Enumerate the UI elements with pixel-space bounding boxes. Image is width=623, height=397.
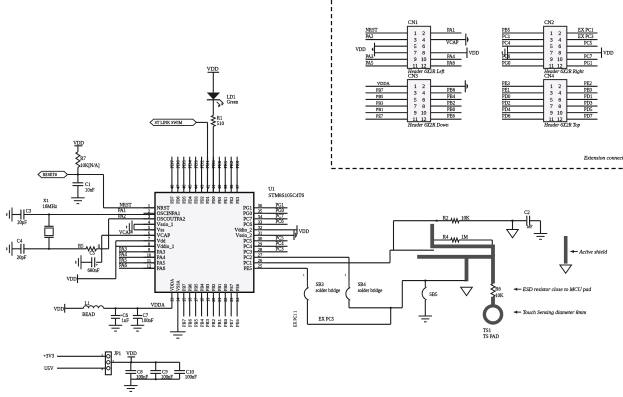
svg-text:PA3: PA3 <box>157 251 166 256</box>
svg-text:44: 44 <box>193 185 198 189</box>
svg-text:Vddio_1: Vddio_1 <box>157 245 175 250</box>
svg-text:VDDA: VDDA <box>151 303 165 308</box>
svg-text:12: 12 <box>421 117 427 123</box>
svg-text:PD2: PD2 <box>199 160 204 169</box>
svg-text:EX PC3: EX PC3 <box>578 35 594 40</box>
svg-text:11: 11 <box>413 64 419 70</box>
svg-text:VCAP: VCAP <box>157 234 171 239</box>
svg-text:2: 2 <box>558 31 561 37</box>
svg-text:PD5: PD5 <box>181 196 186 203</box>
svg-text:10: 10 <box>557 110 563 116</box>
svg-text:PG0: PG0 <box>243 212 252 217</box>
svg-text:12: 12 <box>557 117 563 123</box>
svg-text:2: 2 <box>422 84 425 90</box>
svg-text:PB7: PB7 <box>376 87 383 92</box>
svg-text:PE3: PE3 <box>235 160 240 168</box>
svg-text:Vss: Vss <box>157 229 165 234</box>
svg-text:7: 7 <box>550 104 553 110</box>
svg-text:ST LINK SWIM: ST LINK SWIM <box>155 120 183 125</box>
svg-text:PB2: PB2 <box>447 102 456 107</box>
svg-text:PC5: PC5 <box>243 240 252 245</box>
svg-text:1: 1 <box>148 203 150 208</box>
svg-text:VDD: VDD <box>67 277 78 282</box>
svg-text:PB1: PB1 <box>376 107 383 112</box>
svg-text:EX PC5: EX PC5 <box>319 318 335 323</box>
svg-text:4: 4 <box>558 91 561 97</box>
svg-text:solder bridge: solder bridge <box>358 289 383 294</box>
svg-text:46: 46 <box>182 185 187 189</box>
svg-text:1: 1 <box>550 84 553 90</box>
svg-text:VDD: VDD <box>54 307 65 312</box>
svg-text:43: 43 <box>199 185 204 189</box>
svg-text:PB3: PB3 <box>376 101 383 106</box>
svg-text:PE2: PE2 <box>584 82 592 87</box>
svg-text:TS PAD: TS PAD <box>483 335 499 340</box>
svg-text:8: 8 <box>422 104 425 110</box>
svg-text:VDDA: VDDA <box>170 279 175 291</box>
svg-text:CN4: CN4 <box>544 73 554 79</box>
svg-text:PG0: PG0 <box>276 209 285 214</box>
svg-text:SB4: SB4 <box>358 283 367 288</box>
svg-text:PE7: PE7 <box>229 319 234 327</box>
svg-text:PC1: PC1 <box>243 262 252 267</box>
svg-text:PD1: PD1 <box>584 95 593 100</box>
svg-text:X1: X1 <box>43 198 49 203</box>
svg-text:10K: 10K <box>495 294 504 299</box>
svg-text:6: 6 <box>422 44 425 50</box>
svg-text:Extension connectors: Extension connectors <box>583 156 623 162</box>
svg-text:3: 3 <box>550 37 553 43</box>
svg-text:VCAP: VCAP <box>446 41 459 46</box>
svg-text:PB5: PB5 <box>193 318 198 327</box>
svg-text:PC5: PC5 <box>584 42 593 47</box>
svg-text:PB3: PB3 <box>205 284 210 291</box>
svg-text:PB5: PB5 <box>376 94 383 99</box>
svg-text:PE2: PE2 <box>229 197 234 204</box>
svg-text:2: 2 <box>558 84 561 90</box>
svg-text:U1: U1 <box>268 187 275 193</box>
svg-text:12: 12 <box>557 64 563 70</box>
svg-text:8: 8 <box>558 51 561 57</box>
svg-text:Vdd: Vdd <box>157 240 166 245</box>
svg-text:4: 4 <box>422 91 425 97</box>
svg-text:Active shield: Active shield <box>578 249 607 255</box>
svg-text:PC1: PC1 <box>502 35 511 40</box>
svg-text:PC3: PC3 <box>243 251 252 256</box>
svg-text:10: 10 <box>421 57 427 63</box>
svg-text:PD2: PD2 <box>502 102 511 107</box>
svg-text:11: 11 <box>413 117 419 123</box>
svg-text:JP1: JP1 <box>114 352 122 357</box>
svg-text:PE6: PE6 <box>447 115 455 120</box>
svg-text:20pF: 20pF <box>17 221 27 226</box>
svg-text:PD6: PD6 <box>176 160 181 169</box>
svg-text:U5V: U5V <box>44 367 54 372</box>
svg-text:9: 9 <box>414 110 417 116</box>
svg-text:PE1: PE1 <box>223 197 228 204</box>
svg-text:PD6: PD6 <box>502 115 511 120</box>
svg-text:5: 5 <box>414 97 417 103</box>
svg-text:BEAD: BEAD <box>82 313 95 318</box>
svg-text:9: 9 <box>550 57 553 63</box>
svg-text:VSSA: VSSA <box>176 280 181 291</box>
svg-text:16MHz: 16MHz <box>43 205 58 210</box>
svg-text:PD4: PD4 <box>187 160 192 169</box>
svg-text:PC6: PC6 <box>243 223 252 228</box>
svg-text:PC2: PC2 <box>243 256 252 261</box>
svg-text:8: 8 <box>558 104 561 110</box>
svg-text:PB4: PB4 <box>199 283 204 291</box>
svg-text:100nF: 100nF <box>185 375 197 380</box>
svg-text:40: 40 <box>217 185 222 189</box>
svg-text:2: 2 <box>422 31 425 37</box>
svg-text:PG1: PG1 <box>276 203 285 208</box>
svg-text:PB2: PB2 <box>211 318 216 327</box>
svg-text:48: 48 <box>170 185 175 189</box>
svg-text:solder bridge: solder bridge <box>316 289 341 294</box>
svg-text:PB4: PB4 <box>199 318 204 327</box>
svg-text:1nF: 1nF <box>526 225 532 229</box>
svg-text:PE0: PE0 <box>217 160 222 168</box>
svg-text:PC6: PC6 <box>276 220 285 225</box>
svg-text:EX PC1 1: EX PC1 1 <box>293 311 298 327</box>
svg-text:3: 3 <box>414 91 417 97</box>
svg-text:OSCOUTPA2: OSCOUTPA2 <box>157 218 186 223</box>
svg-text:PC4: PC4 <box>502 42 511 47</box>
svg-text:SB3: SB3 <box>316 283 325 288</box>
svg-text:PD5: PD5 <box>584 108 593 113</box>
svg-text:CN3: CN3 <box>408 73 418 79</box>
svg-text:7: 7 <box>550 51 553 57</box>
svg-text:PB1: PB1 <box>217 318 222 327</box>
svg-text:4: 4 <box>558 37 561 43</box>
svg-text:12: 12 <box>421 64 427 70</box>
svg-text:1: 1 <box>101 353 103 357</box>
svg-text:PE5: PE5 <box>244 267 253 272</box>
svg-text:2: 2 <box>148 208 150 213</box>
svg-text:12: 12 <box>147 263 151 268</box>
svg-text:PA4: PA4 <box>157 256 166 261</box>
svg-text:CN2: CN2 <box>544 20 554 26</box>
svg-text:11: 11 <box>549 64 555 70</box>
svg-text:Header 6X2R Top: Header 6X2R Top <box>543 124 580 129</box>
svg-text:PD6: PD6 <box>176 196 181 203</box>
svg-text:PA4: PA4 <box>119 253 128 258</box>
svg-text:PB0: PB0 <box>223 284 228 291</box>
svg-text:9: 9 <box>414 57 417 63</box>
svg-text:PA5: PA5 <box>157 262 166 267</box>
svg-text:ESD resistor close to MCU pad: ESD resistor close to MCU pad <box>522 287 592 293</box>
svg-text:PA6: PA6 <box>119 264 128 269</box>
svg-text:PA5: PA5 <box>366 61 375 66</box>
svg-text:PD3: PD3 <box>193 196 198 203</box>
svg-text:PA5: PA5 <box>119 258 128 263</box>
svg-text:PC7: PC7 <box>276 214 285 219</box>
svg-text:PB5: PB5 <box>193 284 198 291</box>
svg-text:R7: R7 <box>80 157 86 162</box>
svg-text:PB6: PB6 <box>187 318 192 327</box>
svg-text:PD7: PD7 <box>170 160 175 169</box>
svg-text:VDD: VDD <box>356 48 367 53</box>
svg-text:9: 9 <box>550 110 553 116</box>
svg-text:PE6: PE6 <box>235 319 240 327</box>
svg-text:PG0: PG0 <box>502 61 511 66</box>
svg-text:CN1: CN1 <box>408 20 418 26</box>
svg-text:C3: C3 <box>26 210 32 215</box>
svg-text:VDD: VDD <box>603 51 614 56</box>
svg-text:VDDA: VDDA <box>377 81 391 86</box>
svg-text:STM8S105C4T6: STM8S105C4T6 <box>268 193 304 199</box>
svg-text:PA4: PA4 <box>447 55 456 60</box>
svg-text:1: 1 <box>414 84 417 90</box>
svg-text:PE2: PE2 <box>229 160 234 168</box>
svg-text:PD7: PD7 <box>170 196 175 203</box>
svg-text:TS1: TS1 <box>483 329 492 334</box>
svg-text:PE1: PE1 <box>502 88 510 93</box>
svg-text:32: 32 <box>258 225 262 230</box>
svg-text:+: + <box>96 262 99 267</box>
svg-text:PD1: PD1 <box>205 196 210 203</box>
svg-text:39: 39 <box>223 185 228 189</box>
svg-text:10K[N/A]: 10K[N/A] <box>80 164 100 169</box>
svg-text:6: 6 <box>422 97 425 103</box>
svg-text:PD0: PD0 <box>211 196 216 203</box>
svg-text:VDD: VDD <box>299 230 310 235</box>
svg-text:+3V3: +3V3 <box>43 354 55 359</box>
svg-text:NRST: NRST <box>366 29 378 34</box>
svg-text:3: 3 <box>101 367 103 371</box>
svg-text:PA1: PA1 <box>447 29 456 34</box>
svg-text:PE3: PE3 <box>502 82 510 87</box>
svg-text:3: 3 <box>414 37 417 43</box>
svg-text:680nF: 680nF <box>88 269 100 274</box>
svg-text:R6: R6 <box>495 288 501 293</box>
svg-text:100nF: 100nF <box>142 319 154 324</box>
svg-text:31: 31 <box>258 230 262 235</box>
svg-text:3: 3 <box>550 91 553 97</box>
svg-text:PA3: PA3 <box>366 55 375 60</box>
svg-text:4: 4 <box>422 37 425 43</box>
svg-text:Vddio_2: Vddio_2 <box>235 229 253 234</box>
svg-text:VCAP: VCAP <box>119 231 132 236</box>
svg-text:NRST: NRST <box>157 207 170 212</box>
svg-text:8: 8 <box>422 51 425 57</box>
svg-text:PB6: PB6 <box>187 284 192 291</box>
svg-text:1: 1 <box>550 31 553 37</box>
svg-text:C4: C4 <box>17 240 23 245</box>
svg-text:PC7: PC7 <box>243 218 252 223</box>
svg-text:PB1: PB1 <box>217 284 222 291</box>
svg-text:47: 47 <box>176 185 181 189</box>
svg-text:PE6: PE6 <box>235 284 240 291</box>
svg-text:OSCINPA1: OSCINPA1 <box>157 212 181 217</box>
svg-text:PC7: PC7 <box>584 55 593 60</box>
svg-text:6: 6 <box>558 44 561 50</box>
svg-text:Green: Green <box>227 101 239 106</box>
svg-text:R2: R2 <box>443 216 449 221</box>
svg-text:C2: C2 <box>524 211 530 216</box>
svg-text:C1: C1 <box>85 183 91 188</box>
svg-text:PB4: PB4 <box>447 95 456 100</box>
svg-text:20pF: 20pF <box>17 256 27 261</box>
svg-text:Vssio_1: Vssio_1 <box>157 223 174 228</box>
svg-text:PB2: PB2 <box>211 284 216 291</box>
svg-text:5: 5 <box>414 44 417 50</box>
svg-text:PB7: PB7 <box>181 284 186 291</box>
svg-text:R4: R4 <box>443 236 449 241</box>
svg-text:PB0: PB0 <box>223 318 228 327</box>
svg-text:1nF: 1nF <box>122 319 130 324</box>
svg-text:VDD: VDD <box>207 66 219 72</box>
svg-text:PE3: PE3 <box>235 197 240 204</box>
svg-text:PG1: PG1 <box>584 61 593 66</box>
svg-text:PC3: PC3 <box>276 247 285 252</box>
svg-text:1: 1 <box>414 31 417 37</box>
svg-text:RESET#: RESET# <box>43 172 57 177</box>
svg-text:Vssio_2: Vssio_2 <box>236 234 253 239</box>
svg-text:C5: C5 <box>90 251 96 256</box>
svg-text:PC4: PC4 <box>243 245 252 250</box>
svg-text:PE7: PE7 <box>376 114 383 119</box>
svg-text:45: 45 <box>187 185 192 189</box>
svg-text:PE1: PE1 <box>223 160 228 168</box>
svg-text:37: 37 <box>235 185 240 189</box>
svg-text:PD3: PD3 <box>193 160 198 169</box>
svg-text:PA6: PA6 <box>447 61 456 66</box>
svg-text:PD0: PD0 <box>502 95 511 100</box>
svg-text:5: 5 <box>550 44 553 50</box>
svg-text:7: 7 <box>414 104 417 110</box>
svg-text:PE7: PE7 <box>229 284 234 291</box>
svg-text:38: 38 <box>229 185 234 189</box>
svg-text:PB0: PB0 <box>447 108 456 113</box>
svg-text:L1: L1 <box>85 302 91 307</box>
svg-text:10: 10 <box>557 57 563 63</box>
svg-text:PD3: PD3 <box>584 102 593 107</box>
svg-text:PC6: PC6 <box>502 55 511 60</box>
svg-text:10: 10 <box>421 110 427 116</box>
svg-text:PD7: PD7 <box>584 115 593 120</box>
svg-text:PB5: PB5 <box>502 29 511 34</box>
svg-text:LD1: LD1 <box>227 95 236 100</box>
svg-text:PB3: PB3 <box>205 318 210 327</box>
svg-text:PB7: PB7 <box>181 318 186 327</box>
svg-text:R1: R1 <box>217 117 223 122</box>
svg-text:PD2: PD2 <box>199 196 204 203</box>
svg-text:Touch Sensing diameter 8mm: Touch Sensing diameter 8mm <box>523 310 587 316</box>
svg-text:11: 11 <box>549 117 555 123</box>
svg-text:PE0: PE0 <box>584 88 592 93</box>
svg-text:11: 11 <box>147 258 151 263</box>
svg-text:PE0: PE0 <box>217 197 222 204</box>
svg-text:PC4: PC4 <box>276 242 285 247</box>
svg-text:VDD: VDD <box>469 51 480 56</box>
svg-text:PB6: PB6 <box>447 88 456 93</box>
svg-text:PG1: PG1 <box>243 207 252 212</box>
svg-text:PA1: PA1 <box>118 209 127 214</box>
svg-text:NRST: NRST <box>120 203 132 208</box>
svg-text:7: 7 <box>414 51 417 57</box>
svg-text:6: 6 <box>558 97 561 103</box>
svg-text:PA6: PA6 <box>157 267 166 272</box>
svg-text:PA3: PA3 <box>119 247 128 252</box>
svg-text:EX PC1: EX PC1 <box>578 29 594 34</box>
svg-text:5: 5 <box>550 97 553 103</box>
svg-text:PC5: PC5 <box>276 236 285 241</box>
svg-text:PD4: PD4 <box>187 195 192 203</box>
svg-text:PD4: PD4 <box>502 108 511 113</box>
svg-text:Header 6X2R Down: Header 6X2R Down <box>407 124 449 129</box>
svg-text:R5: R5 <box>78 245 84 250</box>
svg-text:PD5: PD5 <box>181 160 186 169</box>
svg-text:510: 510 <box>217 122 225 127</box>
svg-text:PA2: PA2 <box>118 214 127 219</box>
svg-text:SB5: SB5 <box>429 293 438 298</box>
svg-text:PA2: PA2 <box>366 35 375 40</box>
svg-text:10nF: 10nF <box>85 188 95 193</box>
